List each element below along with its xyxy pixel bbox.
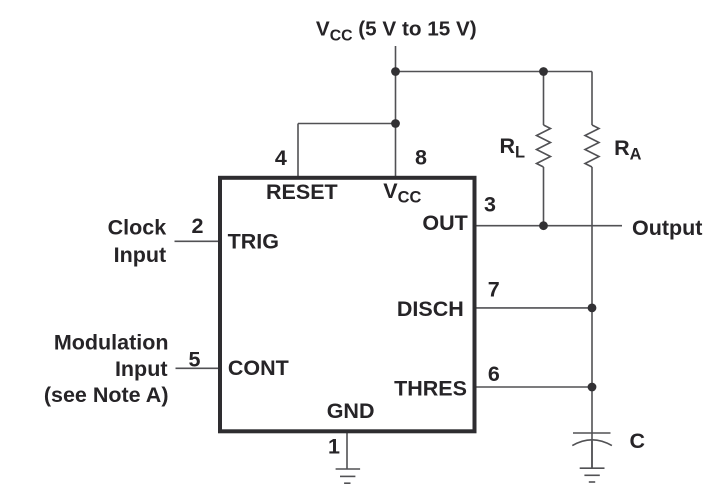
svg-text:TRIG: TRIG (228, 230, 279, 254)
wire RA bottom lead down through DISCH and THRES nodes to capacitor (591, 167, 593, 468)
wire pin-3 OUT lead to Output (474, 225, 622, 227)
resistor RA zigzag body (585, 125, 599, 167)
node: THRES junction on RA drop (588, 383, 597, 392)
wire RL bottom lead to OUT node (543, 167, 545, 226)
IC body (555 timer) (220, 178, 475, 431)
wire Vcc stub from label down to top rail (395, 46, 397, 72)
svg-text:4: 4 (275, 146, 287, 170)
wire pin-4 branch horizontal at y=123.5 (298, 123, 396, 125)
wire pin-7 DISCH lead to RA node (474, 307, 592, 309)
svg-text:C: C (630, 429, 646, 453)
wire pin-2 TRIG lead (Clock Input) (175, 240, 221, 242)
svg-text:GND: GND (327, 399, 375, 423)
svg-text:1: 1 (328, 434, 340, 458)
wire RL top lead from rail node (543, 72, 545, 126)
svg-text:Modulation: Modulation (54, 330, 169, 354)
wire capacitor bottom lead to ground (591, 441, 593, 468)
svg-text:8: 8 (415, 146, 427, 170)
svg-text:RESET: RESET (266, 180, 338, 204)
svg-text:6: 6 (488, 362, 500, 386)
svg-text:3: 3 (484, 193, 496, 217)
node: pin-4 branch junction on pin-8 drop (391, 119, 400, 128)
node: RL top junction on supply rail (539, 67, 548, 76)
wire pin-4 vertical drop into RESET pin (297, 124, 299, 178)
svg-text:DISCH: DISCH (397, 297, 464, 321)
ground symbol under capacitor C (580, 467, 605, 469)
wire pin-5 CONT lead (Modulation Input) (176, 367, 221, 369)
wire top supply rail from pin-8 branch to RA corner (396, 71, 593, 73)
svg-text:5: 5 (189, 348, 201, 372)
svg-text:THRES: THRES (394, 377, 467, 401)
resistor RL zigzag body (537, 125, 551, 167)
svg-text:Output: Output (632, 216, 702, 240)
svg-text:7: 7 (488, 277, 500, 301)
svg-text:CONT: CONT (228, 356, 289, 380)
svg-text:Clock: Clock (108, 216, 167, 240)
svg-text:OUT: OUT (422, 211, 467, 235)
wire pin-8 vertical drop from rail into IC Vcc pin (395, 72, 397, 178)
svg-text:Input: Input (115, 357, 168, 381)
node: RL bottom junction on OUT wire (539, 221, 548, 230)
svg-text:(see Note A): (see Note A) (44, 383, 169, 407)
capacitor C curved plate (572, 440, 612, 446)
capacitor C top plate (573, 432, 611, 434)
ground symbol under pin 1 (336, 468, 361, 470)
wire RA top lead (corner from rail) (591, 72, 593, 126)
node: DISCH junction on RA drop (588, 304, 597, 313)
wire pin-6 THRES lead to RA node (474, 386, 592, 388)
svg-text:Input: Input (114, 243, 167, 267)
node: rail junction above Vcc pin (391, 67, 400, 76)
svg-text:2: 2 (192, 214, 204, 238)
wire pin-1 GND lead (346, 433, 348, 469)
